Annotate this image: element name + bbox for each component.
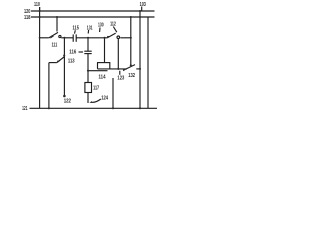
transistor T114 left leg	[97, 63, 99, 69]
leader tick for 130	[99, 28, 101, 33]
wire vertical to bottom rail at node 123 side	[112, 78, 114, 108]
svg-text:116: 116	[69, 50, 76, 56]
svg-text:131: 131	[87, 25, 93, 31]
svg-text:118: 118	[24, 15, 30, 21]
rail 120 (top supply line)	[31, 10, 155, 12]
transistor T114 top bar	[97, 62, 110, 64]
switch S112 blade	[107, 33, 115, 38]
svg-text:132: 132	[128, 73, 135, 79]
wire right vertical from rail 120	[139, 11, 141, 108]
wire main horizontal left segment	[40, 37, 49, 39]
svg-text:112: 112	[110, 21, 116, 27]
rail 118 (second supply line)	[31, 16, 155, 18]
switch S111 pivot wedge	[50, 36, 54, 39]
node dot main wire at transistor drop	[103, 37, 105, 39]
node dot rail120 right vertical	[139, 10, 141, 12]
wire 110 vertical line	[39, 7, 41, 108]
node dot middle line at 123	[117, 68, 119, 70]
leader arrow for 124	[91, 99, 101, 102]
rail 121 (bottom line)	[30, 107, 158, 109]
node dot bottom rail middle	[112, 107, 114, 109]
svg-text:110: 110	[34, 2, 40, 8]
contact dot switch 113	[63, 55, 65, 57]
leader arrow for 116	[79, 51, 84, 53]
wire resistor to open terminal 124	[87, 93, 89, 104]
wire middle horizontal left segment	[98, 68, 128, 70]
wire drop to transistor T114 drain	[104, 38, 106, 63]
leader tick for 123	[119, 71, 121, 75]
switch S113 blade	[57, 57, 64, 63]
switch S112 contact circle	[117, 36, 120, 39]
node dot main wire node A	[63, 37, 65, 39]
node dot main wire right end	[130, 37, 132, 39]
leader tick for 115	[74, 30, 77, 33]
terminal dot 122	[63, 95, 66, 98]
svg-text:103: 103	[140, 2, 146, 8]
node dot main wire at 110 line	[39, 37, 41, 39]
wire C116 to gate node and resistor R117	[87, 54, 89, 83]
transistor T114 gate bar	[99, 70, 108, 72]
leader arrowhead for 124	[89, 101, 92, 103]
wire drop to capacitor C116	[87, 38, 89, 51]
wire drop from rail 118 to switch 111	[56, 17, 58, 32]
wire drop from S112 contact to middle line	[117, 39, 119, 69]
leader tick for 131	[87, 30, 89, 34]
svg-text:122: 122	[64, 98, 71, 104]
wire S113 horizontal stub	[49, 62, 57, 64]
node dot middle line right	[139, 68, 141, 70]
capacitor C116 plates	[84, 50, 91, 52]
wire middle horizontal right segment	[136, 68, 140, 70]
svg-text:114: 114	[99, 74, 107, 80]
wire far right vertical from rail 118	[147, 17, 149, 108]
svg-text:113: 113	[68, 59, 75, 65]
switch S132 pivot wedge	[123, 69, 127, 72]
svg-text:121: 121	[22, 106, 27, 112]
svg-text:115: 115	[73, 26, 79, 32]
node dot rail118 switch111 drop	[56, 16, 58, 18]
node dot rail118 x110	[39, 16, 41, 18]
svg-text:130: 130	[98, 23, 104, 29]
wire main horizontal right segment	[120, 37, 131, 39]
wire main horizontal to capacitor C115	[61, 37, 73, 39]
switch S111 blade	[49, 32, 58, 38]
pivot dot switch 132	[130, 64, 132, 66]
svg-text:111: 111	[52, 43, 58, 49]
capacitor C115 plates	[72, 34, 74, 41]
wire pivot drop for switch 132	[130, 17, 132, 65]
node dot bottom rail left	[48, 107, 50, 109]
node dot bottom rail right	[139, 107, 141, 109]
wire left drop to bottom rail	[48, 63, 50, 109]
leader tick for 103	[141, 7, 143, 11]
switch S111 contact circle	[59, 35, 61, 37]
node dot gate lead	[87, 70, 89, 72]
switch S112 pivot wedge	[107, 36, 110, 38]
node dot rail120 x110	[39, 10, 41, 12]
leader arrowhead for 116	[82, 51, 84, 52]
leader tick for 110	[39, 7, 41, 11]
svg-text:124: 124	[101, 95, 109, 101]
svg-text:123: 123	[117, 75, 124, 81]
switch S113 pivot wedge	[57, 61, 61, 64]
node dot rail118 pivot line	[130, 16, 132, 18]
svg-text:117: 117	[93, 85, 99, 91]
transistor T114 right leg	[109, 63, 111, 69]
wire node A vertical (to switch 113 contact and terminal 122)	[63, 38, 65, 96]
resistor R117 body	[85, 83, 92, 93]
leader tick for 112	[113, 27, 117, 33]
wire main horizontal C115 to switch S112	[76, 37, 107, 39]
switch S132 blade	[123, 65, 135, 71]
node dot main wire at C116 drop	[87, 37, 89, 39]
wire gate lead from node 131 column	[88, 70, 99, 72]
